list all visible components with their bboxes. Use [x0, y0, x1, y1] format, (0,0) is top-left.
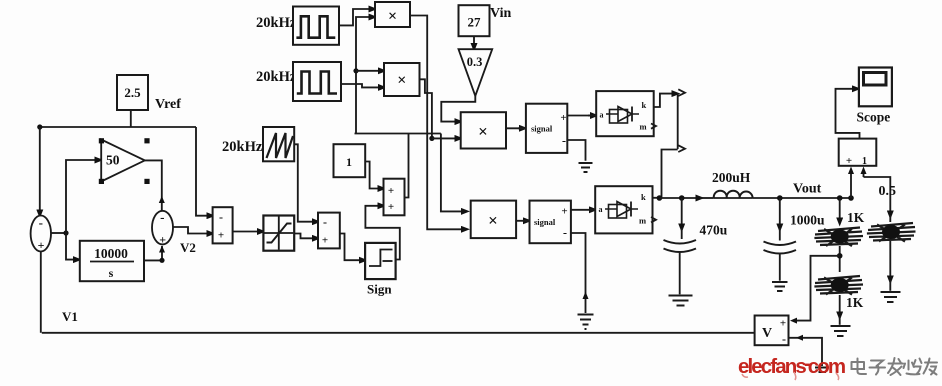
wire R2 to ground: [839, 295, 841, 316]
svg-text:+: +: [159, 233, 166, 247]
wire R3 to ground: [889, 241, 891, 280]
wire PWM horizontal bus: [355, 133, 441, 135]
ground under R3: [881, 292, 901, 302]
svg-text:0.5: 0.5: [879, 184, 897, 199]
measurement block plus-i: [839, 139, 877, 166]
wire IGBT1 k output to breaker: [654, 94, 676, 107]
char shao: [904, 359, 922, 375]
svg-text:Vref: Vref: [155, 97, 181, 112]
voltage measurement block V: [755, 316, 789, 346]
svg-text:-: -: [782, 332, 786, 346]
wire V1 feedback down: [40, 252, 42, 333]
wire sawtooth output: [294, 144, 298, 146]
gain triangle 0.3: [459, 49, 493, 96]
IGBT1 internal diode icon: [606, 113, 639, 115]
wire Vref down: [130, 110, 132, 127]
wire PWM to multiplier M2 input: [356, 70, 383, 72]
wire sum3 output up to PWM bus: [405, 134, 409, 198]
summer ellipse V2: [152, 211, 173, 245]
Scope screen: [864, 73, 887, 86]
svg-text:1K: 1K: [846, 295, 864, 310]
wire sum2 output to Sign block: [340, 234, 364, 261]
svg-text:0.3: 0.3: [467, 55, 483, 69]
wire measurement output to scope: [836, 89, 860, 139]
capacitor C1 plates: [664, 240, 697, 244]
wire output rail: [659, 197, 700, 199]
multiplier M3: [461, 112, 506, 148]
breaker chevron top: [678, 89, 685, 96]
wire IGBT2 k to node: [653, 197, 660, 199]
port square bottom-right: [144, 179, 149, 184]
constant block 1: [334, 144, 366, 177]
svg-text:a: a: [600, 111, 604, 120]
wire signal1 plus to IGBT1 a: [567, 115, 594, 117]
wire PWM bus right down to multiplier M4: [441, 134, 466, 212]
wire inductor to Vout node: [753, 197, 853, 199]
svg-text:+: +: [388, 201, 394, 213]
svg-text:elecfans-com: elecfans-com: [738, 352, 845, 378]
wire signal1 minus to ground: [567, 140, 585, 161]
wire signal2 plus to IGBT2 a: [571, 209, 594, 211]
char dian: [852, 359, 867, 375]
sawtooth generator: [263, 127, 294, 161]
svg-text:+: +: [560, 112, 566, 124]
breaker connecting wire: [677, 94, 679, 150]
ground under C2: [772, 282, 788, 291]
wire sawtooth down to sum2 minus: [298, 146, 317, 222]
svg-text:Scope: Scope: [857, 110, 891, 125]
svg-text:-: -: [219, 210, 223, 224]
wire saturation output to sum2 plus: [294, 234, 316, 239]
sum block S1: [213, 207, 233, 243]
char you: [924, 359, 938, 375]
wire Vref horizontal bus: [40, 126, 196, 128]
op-amp U1 triangle gain 50: [101, 140, 145, 182]
sum block S2: [318, 213, 340, 249]
char zi: [870, 361, 886, 375]
wire V2 output to sum1 plus: [173, 227, 211, 234]
wire Vref bus right branch to sum1: [196, 127, 211, 216]
svg-text:V1: V1: [62, 309, 78, 324]
svg-text:-: -: [323, 215, 327, 229]
IGBT1 m port chevron: [651, 124, 656, 129]
resistor R3 0.5 scribble: [867, 223, 916, 242]
svg-text:V2: V2: [180, 240, 196, 255]
inductor L1 200uH: [714, 191, 753, 198]
IGBT block 2: [595, 186, 652, 233]
logo chinese characters: [852, 358, 938, 375]
multiplier M1: [375, 2, 410, 27]
svg-text:s: s: [109, 266, 114, 280]
wire R1 to mid node: [839, 246, 841, 272]
svg-text:Sign: Sign: [367, 282, 392, 297]
sum block S3: [384, 179, 405, 216]
arrowhead left on V minus wire: [796, 335, 803, 341]
wire sum1 to saturation: [233, 231, 262, 233]
node cap1000: [777, 195, 783, 201]
node M2 corridor: [429, 136, 434, 141]
svg-text:200uH: 200uH: [712, 170, 751, 185]
svg-text:-: -: [39, 215, 43, 230]
IGBT block 1: [596, 91, 654, 136]
capacitor C2 plates: [764, 242, 797, 246]
svg-text:signal: signal: [534, 217, 556, 227]
svg-text:50: 50: [106, 153, 120, 168]
svg-text:V: V: [762, 326, 772, 341]
port square top-right: [144, 138, 149, 143]
capacitor C1 470u branch: [681, 198, 683, 228]
node mid resistors: [837, 253, 843, 259]
summer ellipse left: [31, 216, 51, 252]
svg-text:1: 1: [346, 155, 352, 169]
IGBT2 m port chevron: [651, 217, 656, 222]
svg-text:+: +: [38, 238, 45, 252]
node resistor top: [837, 195, 843, 201]
pulse generator 2: [293, 62, 341, 101]
wire V minus to small ground: [789, 338, 823, 366]
svg-text:-: -: [562, 134, 566, 148]
wire PWM bus left up to multipliers: [356, 17, 373, 134]
svg-text:-: -: [160, 210, 164, 225]
Sign block: [365, 243, 396, 279]
arrowhead on ground wire: [583, 292, 589, 300]
integrator block 10000/s: [80, 241, 144, 281]
svg-text:470u: 470u: [700, 223, 728, 238]
resistor R1 scribble: [814, 228, 863, 247]
port square bottom-left: [99, 179, 104, 184]
svg-text:k: k: [642, 100, 647, 110]
svg-text:+: +: [218, 230, 224, 242]
wire Sign output feedback up to sum3: [365, 206, 399, 260]
arrowhead up on V2 top wire: [159, 196, 165, 203]
svg-text:Vout: Vout: [793, 182, 822, 197]
wire M2 output down corridor: [420, 79, 432, 138]
wire 27 down to gain: [473, 36, 475, 47]
wire C2 to ground: [779, 255, 781, 281]
node PWM: [353, 68, 358, 73]
wire C1 to ground: [679, 253, 681, 294]
svg-text:+: +: [780, 318, 786, 330]
wire node A down to integrator input: [66, 233, 78, 260]
svg-text:+: +: [561, 206, 567, 218]
breaker chevron bottom: [678, 145, 685, 152]
wire pulse1 to multiplier M1: [339, 9, 373, 25]
controlled source signal1: [526, 104, 567, 153]
svg-text:m: m: [639, 216, 646, 226]
svg-text:1K: 1K: [847, 210, 865, 225]
wire gain output to multiplier M3 input1: [441, 96, 475, 122]
node at left of Vref bus: [37, 124, 42, 129]
multiplier M4: [471, 201, 516, 239]
saturation block: [263, 216, 294, 251]
wire M4 to signal2: [516, 220, 527, 222]
logo flourish strokes: [742, 372, 839, 380]
wire down to sum V1 minus input: [39, 127, 41, 214]
wire pulse2 to multiplier M2: [341, 84, 383, 87]
svg-text:+: +: [846, 155, 852, 167]
svg-text:signal: signal: [531, 124, 553, 134]
resistor R2 1K scribble: [814, 276, 863, 295]
wire V1 bottom rail: [42, 332, 755, 334]
wire corridor to multiplier M3 input2: [432, 137, 459, 139]
svg-text:10000: 10000: [94, 246, 128, 261]
pulse generator 1: [293, 7, 339, 45]
svg-text:Vin: Vin: [490, 6, 511, 21]
constant Vin 27 block: [459, 5, 490, 36]
node integrator corner: [159, 258, 164, 263]
node cap470: [679, 195, 685, 201]
svg-text:20kHz: 20kHz: [256, 69, 297, 85]
node measure branch: [848, 195, 854, 201]
svg-text:×: ×: [397, 72, 406, 89]
svg-text:×: ×: [478, 122, 488, 141]
wire M3 to signal1: [506, 127, 524, 129]
wire rail node up to measurement left port: [850, 174, 852, 198]
svg-text:+: +: [388, 185, 394, 197]
arrowhead left into V plus: [790, 318, 797, 324]
node k2: [657, 195, 663, 201]
ground small under V minus: [815, 368, 829, 373]
svg-text:27: 27: [468, 15, 482, 30]
wire breaker bottom to output node: [662, 150, 678, 198]
svg-text:×: ×: [388, 8, 397, 25]
wire constant 1 to sum3: [365, 162, 382, 189]
svg-text:m: m: [640, 122, 647, 132]
arrowhead up into V2 bottom: [159, 246, 165, 253]
ground under signal2: [578, 315, 594, 330]
controlled source signal2: [530, 201, 571, 244]
wire signal2 minus down to ground: [571, 233, 586, 313]
ground under R2: [831, 326, 851, 336]
ground under signal1: [579, 163, 593, 172]
wire op-amp output down to V2 summer: [145, 160, 162, 211]
multiplier M2: [384, 63, 420, 96]
wire mid node to V measure plus: [797, 256, 840, 321]
svg-text:k: k: [641, 192, 646, 202]
capacitor C2 1000u branch: [779, 198, 781, 228]
char fa: [888, 358, 903, 375]
svg-text:1000u: 1000u: [790, 213, 825, 228]
port square top-left: [99, 138, 104, 143]
svg-text:-: -: [563, 226, 567, 240]
IGBT2 internal diode icon: [605, 208, 638, 210]
svg-text:1: 1: [862, 156, 867, 167]
svg-text:20kHz: 20kHz: [222, 139, 263, 155]
resistor R1 1K branch: [839, 198, 841, 222]
wire M1 output down corridor: [410, 16, 466, 230]
wire summer output to node: [51, 232, 66, 234]
ground under C1: [669, 296, 693, 306]
wire node A up to op-amp input: [66, 160, 99, 233]
svg-text:20kHz: 20kHz: [256, 15, 297, 31]
constant Vref 2.5 block: [117, 75, 148, 110]
wire integrator output to V2 summer plus: [144, 246, 162, 260]
node A: [63, 230, 68, 235]
Scope block: [859, 68, 892, 107]
svg-text:2.5: 2.5: [124, 85, 141, 100]
svg-text:×: ×: [488, 211, 498, 230]
svg-text:+: +: [322, 235, 328, 247]
wire measurement right port to 0.5 resistor: [864, 177, 891, 215]
svg-text:a: a: [599, 205, 603, 214]
